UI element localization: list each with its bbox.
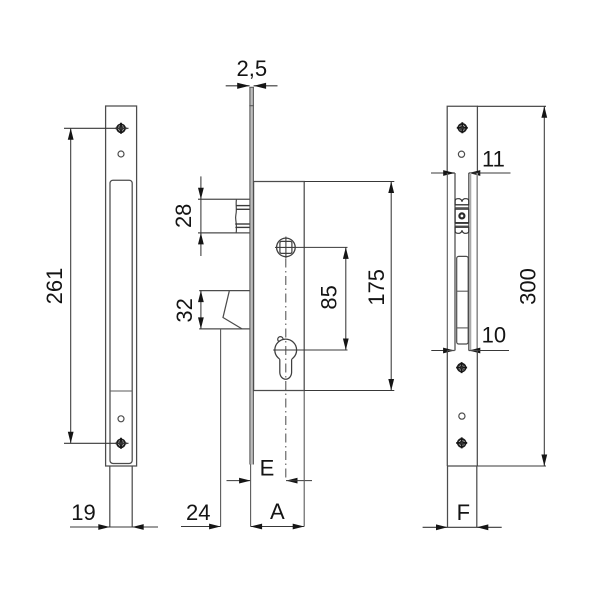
screw right-bottom: [456, 437, 467, 448]
svg-text:300: 300: [516, 268, 541, 305]
roller block: [455, 199, 469, 234]
hole right-bottom: [459, 413, 465, 419]
screw right-top: [457, 122, 468, 133]
dim 85 line: [345, 247, 347, 350]
hole right-top: [458, 151, 464, 157]
faceplate extension line: [250, 464, 252, 526]
svg-text:2,5: 2,5: [237, 56, 268, 81]
dim 85 leaders: [297, 246, 348, 248]
screw top-left: [116, 123, 127, 134]
follower hub: [275, 237, 297, 259]
right slot: [457, 256, 469, 344]
right channel lines: [446, 173, 448, 351]
screw bottom-left: [116, 438, 127, 449]
left recessed slot: [110, 180, 132, 463]
dim E: [227, 480, 251, 482]
right bottom strip: [447, 466, 449, 527]
dim 24: [181, 526, 221, 528]
left bottom strip: [109, 466, 111, 527]
body right extension: [303, 391, 305, 527]
dim 300 leaders: [477, 105, 546, 107]
dim F: [423, 526, 502, 528]
dim 175 line: [390, 182, 392, 391]
lock body: [254, 182, 305, 391]
dim 2,5: [226, 85, 250, 87]
cylinder leader: [273, 349, 347, 351]
svg-text:24: 24: [186, 500, 210, 525]
dim 10: [431, 350, 454, 352]
right top block: [447, 106, 477, 173]
cylinder stem: [280, 358, 292, 380]
cylinder centerline: [285, 259, 287, 481]
dim 261 leaders: [64, 127, 129, 129]
svg-text:175: 175: [364, 269, 389, 306]
svg-text:19: 19: [71, 500, 95, 525]
deadbolt projection line: [220, 329, 222, 527]
faceplate joint tick: [249, 105, 254, 107]
dim 175 leaders: [304, 181, 394, 183]
screw right-mid: [456, 362, 467, 373]
cylinder bump: [278, 337, 283, 342]
dim A: [251, 526, 305, 528]
svg-text:F: F: [457, 500, 470, 525]
svg-text:28: 28: [171, 204, 196, 228]
roller pin: [458, 212, 465, 219]
svg-text:261: 261: [42, 268, 67, 305]
hole bottom-left: [118, 416, 124, 422]
svg-text:32: 32: [172, 298, 197, 322]
deadbolt: [199, 290, 250, 292]
svg-text:10: 10: [482, 323, 506, 348]
right bottom block: [447, 351, 477, 467]
cylinder circle: [275, 339, 297, 361]
latch bolt: [198, 198, 250, 200]
dim 28: [200, 176, 202, 256]
dim 32: [200, 291, 202, 329]
faceplate edge (gray): [250, 87, 254, 465]
hole top-left: [118, 151, 124, 157]
svg-text:E: E: [260, 456, 275, 481]
svg-text:A: A: [270, 499, 285, 524]
left faceplate outline: [106, 106, 137, 466]
svg-text:85: 85: [317, 285, 342, 309]
dim 11: [431, 172, 455, 174]
svg-text:11: 11: [482, 147, 505, 172]
dim 300 line: [543, 106, 545, 466]
slot divider line: [110, 390, 132, 392]
dim 261 line: [70, 128, 72, 443]
dim 19 line: [70, 526, 158, 528]
